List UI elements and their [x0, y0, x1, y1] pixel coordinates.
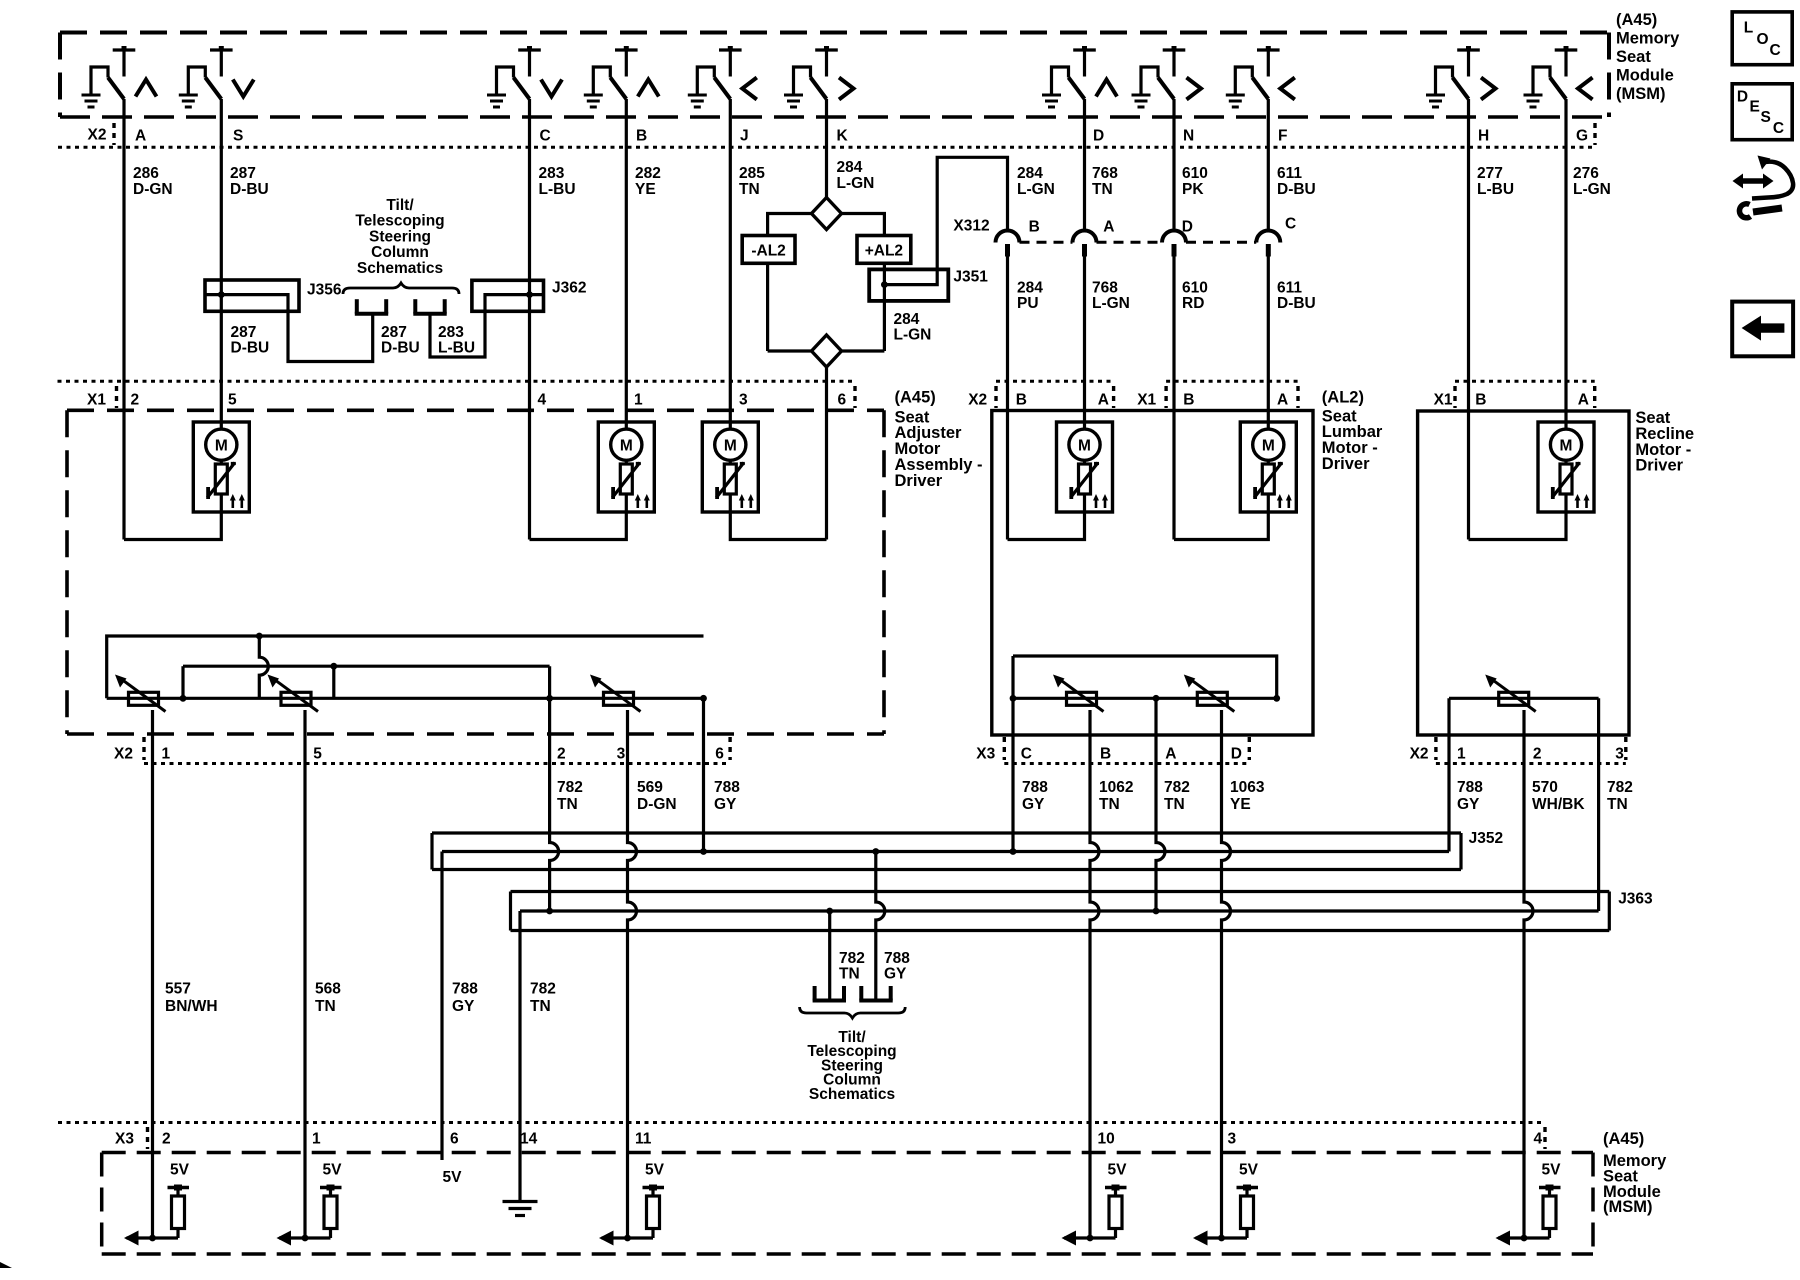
svg-text:286: 286 — [133, 165, 159, 182]
svg-text:D-BU: D-BU — [230, 181, 269, 198]
svg-text:6: 6 — [715, 746, 724, 763]
svg-text:L-BU: L-BU — [539, 181, 576, 198]
svg-text:611: 611 — [1277, 165, 1302, 182]
svg-text:X2: X2 — [114, 746, 133, 763]
svg-text:610: 610 — [1182, 165, 1208, 182]
svg-text:X1: X1 — [1137, 392, 1156, 409]
svg-text:Module: Module — [1616, 67, 1674, 85]
svg-text:782: 782 — [839, 950, 865, 967]
svg-text:M: M — [620, 438, 633, 455]
svg-text:284: 284 — [1017, 280, 1043, 297]
svg-text:Memory: Memory — [1616, 30, 1680, 48]
svg-text:X3: X3 — [976, 746, 995, 763]
svg-text:(MSM): (MSM) — [1603, 1198, 1652, 1216]
svg-text:283: 283 — [438, 324, 464, 341]
svg-text:782: 782 — [1164, 779, 1190, 796]
svg-text:TN: TN — [839, 966, 860, 983]
svg-text:3: 3 — [617, 746, 626, 763]
svg-text:X2: X2 — [88, 127, 107, 144]
svg-text:2: 2 — [1533, 746, 1542, 763]
svg-text:A: A — [1578, 392, 1589, 409]
svg-text:A: A — [1277, 392, 1288, 409]
svg-text:287: 287 — [231, 324, 257, 341]
svg-text:788: 788 — [1457, 779, 1483, 796]
svg-text:3: 3 — [1228, 1131, 1237, 1148]
svg-text:788: 788 — [452, 981, 478, 998]
svg-text:B: B — [1100, 746, 1111, 763]
svg-text:+AL2: +AL2 — [865, 243, 903, 260]
svg-text:B: B — [1475, 392, 1486, 409]
svg-text:L-BU: L-BU — [1477, 181, 1514, 198]
svg-text:Telescoping: Telescoping — [355, 213, 444, 230]
svg-text:B: B — [636, 128, 647, 145]
svg-text:BN/WH: BN/WH — [165, 998, 218, 1015]
svg-text:5V: 5V — [1542, 1162, 1562, 1179]
svg-text:5V: 5V — [443, 1169, 463, 1186]
svg-text:5: 5 — [228, 392, 237, 409]
svg-text:X2: X2 — [968, 392, 987, 409]
svg-text:G: G — [1576, 128, 1588, 145]
svg-text:B: B — [1183, 392, 1194, 409]
svg-text:Seat: Seat — [1616, 48, 1651, 66]
svg-text:M: M — [215, 438, 228, 455]
svg-text:Driver: Driver — [895, 472, 943, 490]
svg-text:570: 570 — [1532, 779, 1558, 796]
svg-text:2: 2 — [162, 1131, 171, 1148]
svg-text:Column: Column — [371, 244, 429, 261]
svg-text:569: 569 — [637, 779, 663, 796]
svg-text:S: S — [1761, 109, 1771, 126]
svg-text:D: D — [1737, 89, 1748, 106]
svg-text:557: 557 — [165, 981, 191, 998]
svg-text:TN: TN — [1164, 796, 1185, 813]
svg-text:D: D — [1182, 219, 1193, 236]
svg-text:2: 2 — [131, 392, 140, 409]
svg-text:788: 788 — [1022, 779, 1048, 796]
svg-text:L-BU: L-BU — [438, 340, 475, 357]
svg-text:285: 285 — [739, 165, 765, 182]
svg-text:S: S — [233, 128, 243, 145]
svg-text:277: 277 — [1477, 165, 1503, 182]
svg-text:(AL2): (AL2) — [1322, 389, 1364, 407]
svg-text:D-BU: D-BU — [1277, 181, 1316, 198]
svg-text:568: 568 — [315, 981, 341, 998]
svg-text:Driver: Driver — [1635, 457, 1683, 475]
svg-text:5V: 5V — [323, 1162, 343, 1179]
svg-text:TN: TN — [315, 998, 336, 1015]
svg-text:TN: TN — [1099, 796, 1120, 813]
svg-text:L-GN: L-GN — [837, 175, 875, 192]
svg-text:WH/BK: WH/BK — [1532, 796, 1585, 813]
svg-text:C: C — [540, 128, 551, 145]
svg-text:4: 4 — [538, 392, 547, 409]
svg-text:M: M — [1078, 438, 1091, 455]
svg-text:TN: TN — [557, 796, 578, 813]
svg-text:X1: X1 — [87, 392, 106, 409]
svg-text:14: 14 — [520, 1131, 538, 1148]
svg-text:J352: J352 — [1469, 830, 1503, 847]
svg-text:A: A — [1103, 219, 1114, 236]
svg-text:768: 768 — [1092, 280, 1118, 297]
svg-text:1062: 1062 — [1099, 779, 1133, 796]
svg-text:611: 611 — [1277, 280, 1302, 297]
svg-text:610: 610 — [1182, 280, 1208, 297]
svg-text:C: C — [1021, 746, 1032, 763]
svg-text:O: O — [1757, 31, 1769, 48]
svg-text:C: C — [1285, 216, 1296, 233]
svg-text:L-GN: L-GN — [1017, 181, 1055, 198]
svg-text:E: E — [1750, 99, 1760, 116]
svg-text:H: H — [1478, 128, 1489, 145]
svg-text:TN: TN — [530, 998, 551, 1015]
svg-text:Tilt/: Tilt/ — [386, 197, 414, 214]
svg-text:M: M — [1262, 438, 1275, 455]
svg-text:F: F — [1278, 128, 1287, 145]
svg-text:5V: 5V — [645, 1162, 665, 1179]
svg-text:D-BU: D-BU — [1277, 295, 1316, 312]
svg-text:3: 3 — [1615, 746, 1624, 763]
svg-text:J362: J362 — [552, 280, 586, 297]
svg-text:YE: YE — [635, 181, 656, 198]
svg-text:782: 782 — [530, 981, 556, 998]
svg-text:L: L — [1744, 20, 1753, 37]
svg-text:B: B — [1029, 219, 1040, 236]
svg-text:1063: 1063 — [1230, 779, 1265, 796]
svg-text:-AL2: -AL2 — [751, 243, 785, 260]
svg-text:N: N — [1183, 128, 1194, 145]
svg-text:287: 287 — [230, 165, 256, 182]
svg-text:Schematics: Schematics — [357, 260, 443, 277]
svg-text:YE: YE — [1230, 796, 1251, 813]
svg-text:GY: GY — [714, 796, 737, 813]
svg-text:PU: PU — [1017, 295, 1039, 312]
svg-text:5V: 5V — [1239, 1162, 1259, 1179]
svg-text:X2: X2 — [1410, 746, 1429, 763]
svg-text:J351: J351 — [953, 269, 988, 286]
svg-text:Schematics: Schematics — [809, 1086, 895, 1103]
svg-text:283: 283 — [539, 165, 565, 182]
svg-text:788: 788 — [714, 779, 740, 796]
svg-text:TN: TN — [739, 181, 760, 198]
svg-text:10: 10 — [1098, 1131, 1115, 1148]
svg-text:(A45): (A45) — [895, 389, 936, 407]
svg-text:J: J — [740, 128, 749, 145]
svg-text:GY: GY — [1022, 796, 1045, 813]
svg-text:276: 276 — [1573, 165, 1599, 182]
svg-text:1: 1 — [634, 392, 643, 409]
svg-text:3: 3 — [739, 392, 748, 409]
svg-text:284: 284 — [894, 311, 920, 328]
svg-text:782: 782 — [557, 779, 583, 796]
svg-text:284: 284 — [1017, 165, 1043, 182]
svg-text:2: 2 — [557, 746, 566, 763]
svg-text:282: 282 — [635, 165, 661, 182]
svg-text:D-BU: D-BU — [231, 340, 270, 357]
svg-text:GY: GY — [452, 998, 475, 1015]
svg-text:11: 11 — [635, 1131, 652, 1148]
svg-text:1: 1 — [312, 1131, 321, 1148]
svg-text:RD: RD — [1182, 295, 1204, 312]
svg-text:5V: 5V — [170, 1162, 190, 1179]
svg-text:D-GN: D-GN — [133, 181, 173, 198]
svg-text:5V: 5V — [1108, 1162, 1128, 1179]
svg-text:A: A — [1098, 392, 1109, 409]
svg-text:J356: J356 — [307, 282, 342, 299]
svg-text:J363: J363 — [1618, 891, 1653, 908]
svg-text:A: A — [1165, 746, 1176, 763]
svg-text:782: 782 — [1607, 779, 1633, 796]
svg-text:GY: GY — [884, 966, 907, 983]
svg-text:L-GN: L-GN — [894, 327, 932, 344]
svg-text:C: C — [1773, 120, 1784, 137]
svg-text:L-GN: L-GN — [1092, 295, 1130, 312]
svg-text:(A45): (A45) — [1616, 11, 1657, 29]
svg-text:B: B — [1016, 392, 1027, 409]
svg-text:Steering: Steering — [369, 228, 431, 245]
svg-text:D: D — [1093, 128, 1104, 145]
svg-text:6: 6 — [838, 392, 847, 409]
svg-text:(MSM): (MSM) — [1616, 85, 1665, 103]
svg-text:TN: TN — [1607, 796, 1628, 813]
svg-text:D-GN: D-GN — [637, 796, 677, 813]
svg-text:C: C — [1770, 42, 1781, 59]
svg-text:M: M — [1560, 438, 1573, 455]
svg-text:D: D — [1231, 746, 1242, 763]
svg-text:4: 4 — [1534, 1131, 1543, 1148]
svg-text:A: A — [135, 128, 146, 145]
svg-text:X312: X312 — [953, 218, 989, 235]
svg-text:X3: X3 — [115, 1131, 134, 1148]
svg-text:(A45): (A45) — [1603, 1130, 1644, 1148]
svg-text:1: 1 — [162, 746, 171, 763]
svg-text:6: 6 — [450, 1131, 459, 1148]
svg-text:788: 788 — [884, 950, 910, 967]
svg-text:Driver: Driver — [1322, 455, 1370, 473]
svg-text:L-GN: L-GN — [1573, 181, 1611, 198]
svg-text:768: 768 — [1092, 165, 1118, 182]
svg-text:TN: TN — [1092, 181, 1113, 198]
svg-text:K: K — [837, 128, 849, 145]
svg-text:284: 284 — [837, 159, 863, 176]
svg-text:287: 287 — [381, 324, 407, 341]
svg-text:5: 5 — [313, 746, 322, 763]
svg-text:1: 1 — [1457, 746, 1466, 763]
svg-text:PK: PK — [1182, 181, 1204, 198]
svg-text:GY: GY — [1457, 796, 1480, 813]
svg-text:M: M — [724, 438, 737, 455]
svg-text:X1: X1 — [1434, 392, 1453, 409]
svg-text:D-BU: D-BU — [381, 340, 420, 357]
